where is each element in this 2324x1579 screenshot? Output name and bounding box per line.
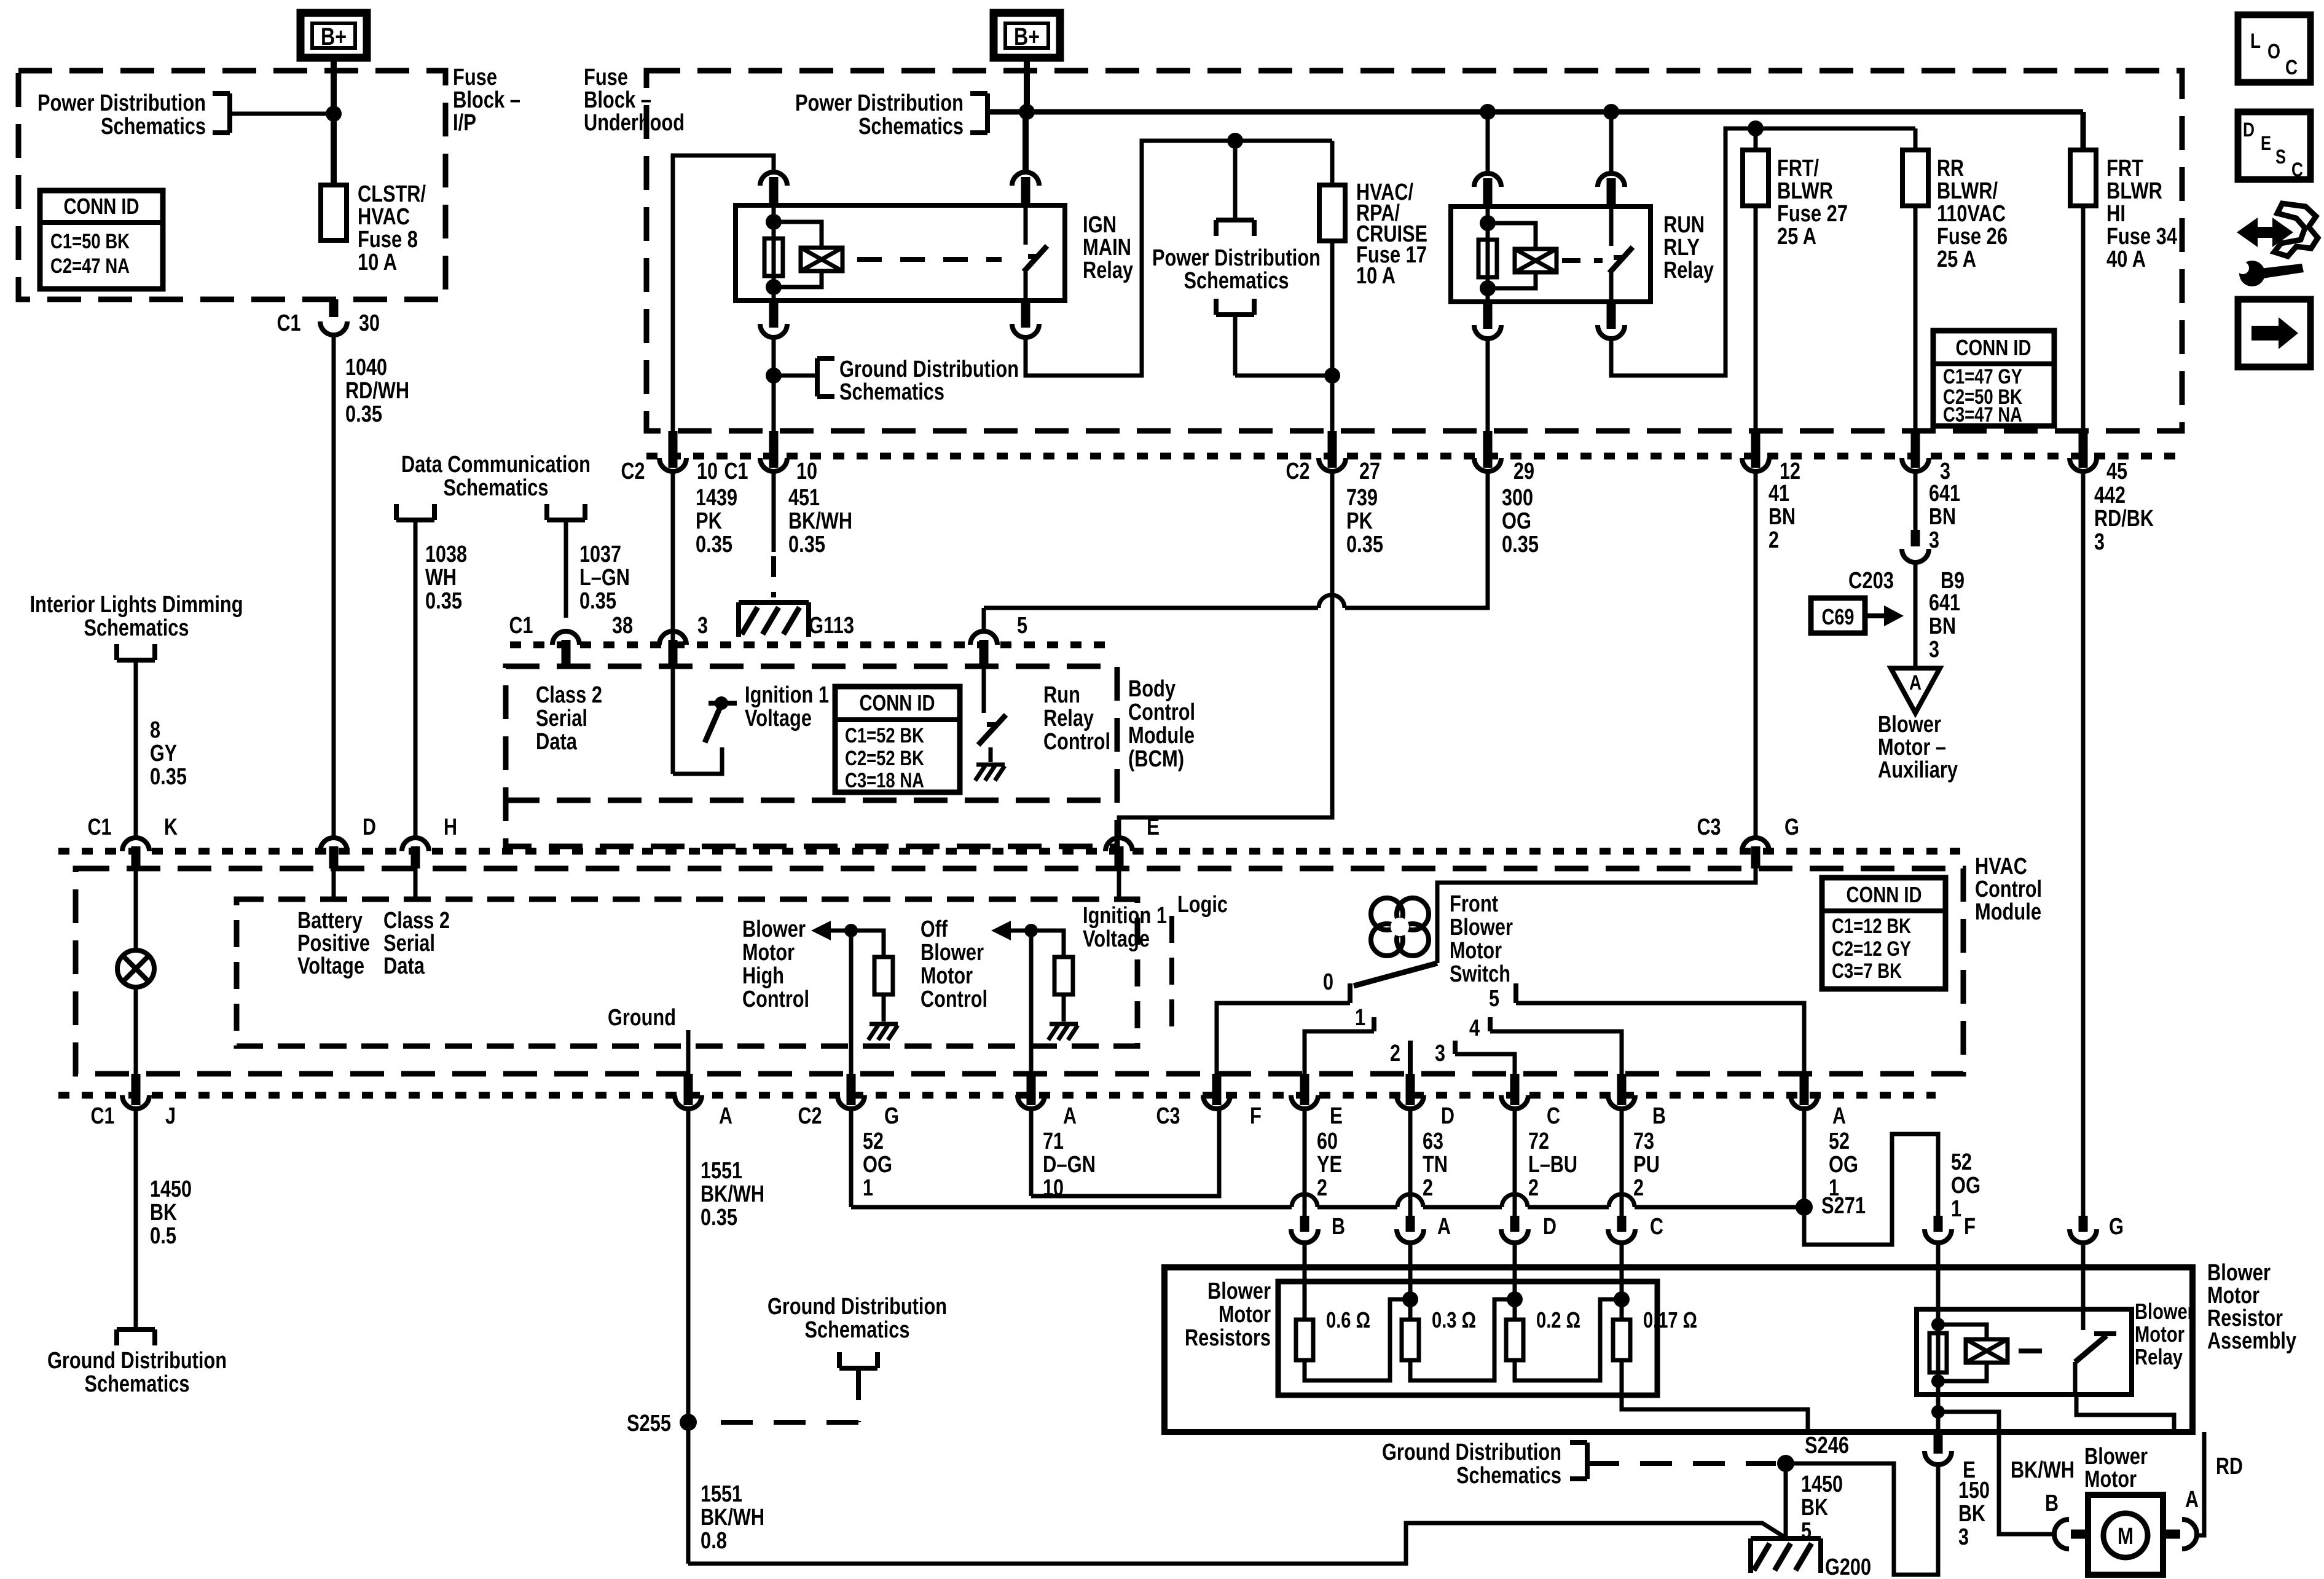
svg-text:1439: 1439 (696, 485, 737, 511)
wire position 5 to A (1516, 1003, 1804, 1074)
svg-text:S: S (2275, 146, 2286, 168)
svg-text:CONN ID: CONN ID (860, 690, 935, 715)
switch of IGN MAIN relay (1024, 205, 1028, 245)
svg-text:B+: B+ (321, 23, 347, 50)
ground G200 (1751, 1536, 1821, 1541)
fuse F34 FRT BLWR HI Fuse 34 40A (2070, 150, 2096, 206)
connector pin A blower motor (2182, 1519, 2197, 1549)
svg-text:150: 150 (1958, 1478, 1990, 1503)
svg-text:0.3 Ω: 0.3 Ω (1432, 1307, 1476, 1333)
svg-text:10: 10 (697, 459, 718, 484)
svg-text:30: 30 (359, 310, 380, 336)
svg-text:641: 641 (1929, 481, 1960, 506)
svg-text:Data: Data (383, 953, 425, 979)
svg-text:M: M (2118, 1524, 2134, 1549)
svg-text:D: D (363, 814, 376, 840)
relay IGN MAIN box (736, 205, 1065, 301)
connector pin F resistor assembly (1934, 1216, 1943, 1232)
svg-text:Blower: Blower (2207, 1260, 2271, 1286)
wire R2 to node 3 (1410, 1299, 1515, 1380)
svg-text:1450: 1450 (1801, 1471, 1843, 1497)
wire 52 OG 1 from C2 G to S271 (849, 1109, 854, 1207)
svg-text:WH: WH (425, 565, 457, 591)
svg-text:S246: S246 (1805, 1433, 1849, 1459)
resistor blower high pulldown (851, 931, 884, 957)
svg-text:Motor: Motor (2084, 1467, 2137, 1492)
wire position 2 to D (1408, 1041, 1413, 1074)
blower motor resistor assembly box (1164, 1267, 2192, 1432)
svg-text:1551: 1551 (701, 1481, 742, 1507)
svg-text:Serial: Serial (536, 706, 587, 731)
connector pin A ground (684, 1074, 693, 1105)
wire B+ to IGN MAIN switch (1023, 112, 1029, 172)
connector C3 pin G (1742, 838, 1769, 851)
connector BCM pin 3 (659, 631, 686, 645)
svg-text:Serial: Serial (383, 931, 435, 956)
svg-text:Motor: Motor (921, 963, 973, 989)
node S271 (1796, 1199, 1813, 1216)
svg-text:C2: C2 (798, 1103, 822, 1129)
svg-text:Front: Front (1450, 891, 1498, 917)
wire RUN RLY coil low to connector 29 (1486, 339, 1490, 458)
connector pin E (1105, 838, 1133, 851)
connector pin 45 (442 RD/BK) (2079, 431, 2088, 468)
svg-text:Assembly: Assembly (2207, 1328, 2296, 1354)
svg-text:0.5: 0.5 (150, 1223, 176, 1249)
svg-text:Data Communication: Data Communication (401, 452, 591, 478)
svg-text:41: 41 (1769, 481, 1789, 506)
wire 1551 BK/WH 0.8 (686, 1422, 691, 1564)
wire 1439 PK 0.35 (671, 471, 675, 774)
svg-text:0.35: 0.35 (425, 588, 462, 614)
wire 300 OG 0.35 to BCM 5 (1345, 471, 1488, 608)
svg-text:25 A: 25 A (1777, 224, 1816, 250)
svg-text:Schematics: Schematics (1456, 1463, 1561, 1489)
wire battery positive voltage into logic (332, 868, 336, 899)
HVAC module bottom connector row (dotted) (58, 1092, 1936, 1099)
svg-text:C: C (2291, 159, 2303, 181)
node B+ bus at RUN RLY switch (1603, 104, 1619, 120)
svg-text:1551: 1551 (701, 1158, 742, 1184)
node junction on B+ feed (326, 106, 342, 122)
wire B+ to RUN RLY coil (1486, 112, 1490, 173)
svg-text:FRT: FRT (2106, 156, 2143, 181)
svg-text:0.35: 0.35 (1502, 532, 1539, 557)
svg-text:63: 63 (1423, 1128, 1443, 1154)
svg-text:Control: Control (742, 986, 809, 1012)
svg-text:4: 4 (1469, 1015, 1480, 1041)
connector C1 pin 38 (BCM) (552, 631, 579, 645)
svg-text:MAIN: MAIN (1083, 235, 1131, 261)
svg-text:BLWR/: BLWR/ (1937, 178, 1998, 204)
icon LOC box (2238, 15, 2310, 82)
svg-text:Body: Body (1128, 676, 1176, 702)
svg-text:5: 5 (1017, 613, 1027, 639)
svg-text:Blower: Blower (2084, 1444, 2148, 1470)
fuse F8 CLSTR/HVAC Fuse 8 10A (321, 185, 347, 240)
svg-text:IGN: IGN (1083, 212, 1117, 238)
svg-text:Ignition 1: Ignition 1 (1083, 903, 1167, 929)
wire fuse 17 bottom / reference join (1235, 374, 1332, 378)
wire IGN MAIN switch out to fuse 17 feed (1026, 141, 1332, 376)
relay blower motor box (1917, 1309, 2132, 1395)
svg-text:C69: C69 (1822, 604, 1855, 629)
switch position 0 (1348, 983, 1352, 1003)
svg-text:Block –: Block – (453, 87, 520, 113)
reference Ground Distribution Schematics (underhood) (815, 358, 820, 396)
connector pin C (1510, 1074, 1520, 1105)
svg-text:0.35: 0.35 (150, 764, 187, 790)
svg-text:0.2 Ω: 0.2 Ω (1536, 1307, 1580, 1333)
svg-text:PU: PU (1633, 1152, 1660, 1178)
svg-text:27: 27 (1359, 459, 1380, 484)
svg-text:HVAC: HVAC (1975, 854, 2027, 880)
svg-text:A: A (1832, 1103, 1846, 1129)
svg-text:GY: GY (150, 741, 177, 766)
connector pin A off blower (1027, 1074, 1036, 1105)
svg-text:BK: BK (150, 1200, 177, 1226)
svg-text:0.35: 0.35 (788, 532, 825, 557)
wire 52 OG 1 switch common (1802, 1109, 1807, 1207)
svg-text:CONN ID: CONN ID (1847, 882, 1922, 907)
svg-text:Class 2: Class 2 (383, 908, 450, 934)
svg-text:C2=12 GY: C2=12 GY (1832, 937, 1911, 961)
svg-text:RD/BK: RD/BK (2094, 506, 2154, 532)
svg-text:F: F (1250, 1103, 1262, 1129)
svg-text:1037: 1037 (579, 541, 621, 567)
connector pin C resistor assembly (1617, 1216, 1627, 1232)
svg-text:K: K (164, 814, 178, 840)
CONN ID table (BCM) (835, 687, 960, 792)
wire reference to B+ node (230, 112, 334, 116)
node S246 (1777, 1455, 1794, 1472)
svg-text:3: 3 (2094, 529, 2105, 555)
BCM connector row (dotted) (510, 642, 1117, 648)
wire position 4 to B (1490, 1031, 1622, 1074)
svg-text:Motor: Motor (1450, 938, 1502, 964)
svg-text:RUN: RUN (1663, 212, 1705, 238)
coil of blower motor relay (1936, 1309, 1941, 1395)
svg-text:Ground: Ground (608, 1005, 676, 1031)
svg-text:Power Distribution: Power Distribution (1152, 245, 1321, 271)
svg-text:Resistors: Resistors (1185, 1325, 1271, 1351)
B+ battery symbol (I/P) (300, 13, 367, 58)
svg-text:C1: C1 (91, 1103, 115, 1129)
wire relay coil low to E and B (1936, 1395, 1941, 1435)
svg-text:300: 300 (1502, 485, 1533, 511)
svg-text:Schematics: Schematics (444, 475, 549, 501)
svg-text:C3=7 BK: C3=7 BK (1832, 959, 1902, 983)
svg-text:C1=52 BK: C1=52 BK (845, 724, 924, 747)
svg-text:BK/WH: BK/WH (2011, 1457, 2075, 1483)
connector arc RUN RLY coil top pin (1474, 173, 1501, 187)
svg-text:Block –: Block – (584, 87, 651, 113)
svg-text:45: 45 (2106, 459, 2127, 484)
wire S246 to G200 (1784, 1463, 1788, 1538)
svg-text:0.8: 0.8 (701, 1528, 727, 1554)
svg-text:8: 8 (150, 717, 160, 743)
wire 73 PU 2 (1620, 1109, 1624, 1216)
connector pin 12 (41 BN) (1751, 431, 1761, 468)
wire bus corner to fuse 34 (2081, 112, 2086, 150)
fuse F26 RR BLWR/110VAC Fuse 26 25A (1914, 128, 1918, 150)
wire 8 GY 0.35 (134, 660, 138, 838)
svg-text:C: C (2285, 56, 2298, 79)
svg-text:C1: C1 (509, 613, 533, 639)
svg-text:Auxiliary: Auxiliary (1878, 757, 1958, 783)
wire RD to motor A (2197, 1432, 2204, 1535)
resistor R1 0.6 ohm (1296, 1320, 1313, 1360)
svg-text:BN: BN (1929, 504, 1956, 530)
node B+ bus at RUN RLY coil (1480, 104, 1496, 120)
switch position 3 (1453, 1041, 1458, 1054)
svg-text:C203: C203 (1848, 568, 1894, 594)
logic divider dashed (1169, 916, 1174, 1034)
wire module G to fan switch (1437, 868, 1756, 963)
svg-text:451: 451 (788, 485, 820, 511)
svg-text:Power Distribution: Power Distribution (37, 90, 206, 116)
connector C2 pin 10 (1439 PK) (669, 431, 678, 468)
svg-text:A: A (719, 1103, 732, 1129)
svg-text:C3: C3 (1156, 1103, 1180, 1129)
svg-text:Schematics: Schematics (805, 1317, 910, 1343)
svg-text:A: A (1437, 1214, 1451, 1240)
svg-text:Underhood: Underhood (584, 110, 685, 136)
wire into resistor 1 (1303, 1243, 1307, 1320)
reference Power Distribution Schematics (mid) (1233, 141, 1238, 220)
svg-text:D: D (1543, 1214, 1557, 1240)
resistor R2 0.3 ohm (1402, 1320, 1419, 1360)
wire 1551 BK/WH 0.35 (686, 1109, 691, 1422)
svg-text:S271: S271 (1821, 1193, 1866, 1219)
off blower motor control arrow (991, 921, 1011, 940)
svg-text:High: High (742, 963, 784, 989)
svg-text:Blower: Blower (1878, 712, 1941, 738)
svg-text:Off: Off (921, 916, 948, 942)
svg-text:52: 52 (1951, 1149, 1972, 1175)
wire 641 BN 3 to blower aux (1914, 562, 1918, 668)
svg-text:CLSTR/: CLSTR/ (358, 181, 426, 207)
svg-text:Schematics: Schematics (839, 379, 944, 405)
svg-text:Motor: Motor (742, 940, 795, 966)
svg-text:D–GN: D–GN (1043, 1152, 1096, 1178)
wire 1040 RD/WH 0.35 (332, 335, 336, 838)
svg-text:D: D (2243, 119, 2255, 141)
wire F to off blower node (1217, 1107, 1219, 1111)
connector arc RUN RLY coil bottom pin (1483, 302, 1493, 329)
svg-text:5: 5 (1489, 986, 1499, 1012)
svg-text:L: L (2250, 30, 2261, 53)
svg-text:B: B (2045, 1490, 2059, 1516)
svg-text:BN: BN (1929, 613, 1956, 639)
coil of RUN RLY relay (1486, 207, 1490, 302)
switch position 4 (1488, 1017, 1493, 1031)
CONN ID table (underhood fuse block) (1933, 331, 2054, 426)
wire G to relay switch (2081, 1243, 2086, 1309)
connector arc IGN MAIN coil bottom pin (769, 301, 779, 328)
HVAC module dashed box (76, 868, 1963, 1074)
svg-text:Control: Control (1043, 729, 1110, 755)
svg-text:52: 52 (863, 1128, 884, 1154)
icon arrow box (2238, 299, 2310, 367)
node fuse 27 tap (1748, 120, 1764, 136)
svg-text:Data: Data (536, 729, 578, 755)
svg-text:Power Distribution: Power Distribution (795, 90, 964, 116)
svg-text:10 A: 10 A (358, 250, 397, 275)
svg-text:Ground Distribution: Ground Distribution (767, 1294, 947, 1320)
blower motor auxiliary triangle A (1891, 668, 1940, 713)
svg-text:Blower: Blower (921, 940, 984, 966)
connector pin D resistor assembly (1510, 1216, 1520, 1232)
connector arc IGN MAIN switch top pin (1012, 172, 1039, 186)
svg-text:Resistor: Resistor (2207, 1305, 2283, 1331)
svg-text:G113: G113 (809, 613, 854, 639)
fuse F17 HVAC/RPA/CRUISE Fuse 17 10A (1330, 141, 1335, 185)
svg-text:OG: OG (1951, 1173, 1981, 1199)
svg-text:C2=47 NA: C2=47 NA (50, 254, 130, 278)
svg-text:CONN ID: CONN ID (64, 194, 139, 219)
svg-text:BLWR: BLWR (2106, 178, 2162, 204)
svg-text:L–GN: L–GN (579, 565, 630, 591)
svg-text:60: 60 (1317, 1128, 1338, 1154)
svg-text:Schematics: Schematics (84, 615, 189, 641)
svg-text:C3=47 NA: C3=47 NA (1943, 403, 2022, 427)
icon DESC box (2238, 112, 2310, 179)
connector arc RUN RLY switch bottom pin (1607, 302, 1616, 329)
svg-text:Battery: Battery (297, 908, 363, 934)
wire 63 TN 2 (1408, 1109, 1413, 1216)
svg-text:Run: Run (1043, 682, 1080, 708)
dashed link blower relay coil to switch (2019, 1349, 2052, 1353)
svg-text:Relay: Relay (1663, 258, 1714, 283)
svg-text:2: 2 (1390, 1041, 1400, 1066)
svg-text:Fuse: Fuse (453, 65, 497, 90)
svg-text:BK/WH: BK/WH (701, 1505, 764, 1530)
svg-text:I/P: I/P (453, 110, 476, 136)
ground blower high pulldown (870, 1022, 898, 1026)
svg-text:B: B (1332, 1214, 1345, 1240)
wire R1 to node 2 (1305, 1299, 1410, 1380)
switch position 1 (1372, 1017, 1376, 1031)
svg-text:Schematics: Schematics (1184, 268, 1289, 294)
svg-text:Interior Lights Dimming: Interior Lights Dimming (30, 592, 243, 618)
svg-text:CONN ID: CONN ID (1956, 335, 2032, 360)
connector pin 3 (641 BN) (1911, 431, 1920, 468)
resistor R4 0.17 ohm (1613, 1320, 1630, 1360)
svg-text:BK/WH: BK/WH (788, 508, 852, 534)
svg-text:0: 0 (1323, 969, 1333, 995)
svg-text:73: 73 (1633, 1128, 1654, 1154)
connector pin B blower motor (2054, 1519, 2069, 1549)
connector pin H (402, 838, 429, 851)
svg-text:A: A (1063, 1103, 1077, 1129)
svg-text:2: 2 (1528, 1175, 1539, 1201)
blower motor box (2088, 1495, 2163, 1575)
ground G113 (739, 600, 809, 605)
node PDS tap on fuse 17 feed (1227, 133, 1243, 149)
svg-text:641: 641 (1929, 590, 1960, 616)
CONN ID table (HVAC control module) (1822, 878, 1945, 989)
wire R3 to node 4 (1515, 1299, 1622, 1380)
wire 442 RD/BK 3 to resistor assembly G (2081, 471, 2086, 1216)
fuse block I/P dashed box (18, 71, 446, 299)
svg-text:0.17 Ω: 0.17 Ω (1643, 1307, 1697, 1333)
svg-text:3: 3 (1435, 1041, 1445, 1066)
fan switch arm (1354, 963, 1437, 986)
wire 60 YE 2 (1303, 1109, 1307, 1216)
svg-text:J: J (165, 1103, 176, 1129)
wire 71 D-GN 10 (1029, 1109, 1034, 1196)
connector pin B (1617, 1074, 1627, 1105)
dashed link RUN RLY coil to switch (1562, 258, 1603, 263)
node B+ bus at B+ feed (1019, 104, 1035, 120)
svg-text:442: 442 (2094, 482, 2126, 508)
svg-text:Schematics: Schematics (101, 114, 206, 140)
svg-text:40 A: 40 A (2106, 246, 2146, 272)
wire blower motor high control to C2 G (849, 931, 854, 1074)
svg-text:Control: Control (1975, 876, 2042, 902)
svg-text:Voltage: Voltage (745, 706, 812, 731)
svg-text:BLWR: BLWR (1777, 178, 1833, 204)
dashed link coil to switch (857, 257, 1002, 262)
svg-text:HVAC: HVAC (358, 204, 410, 230)
svg-text:FRT/: FRT/ (1777, 156, 1819, 181)
ground off blower pulldown (1050, 1022, 1078, 1026)
svg-text:Control: Control (921, 986, 987, 1012)
svg-text:G: G (884, 1103, 899, 1129)
svg-text:D: D (1441, 1103, 1454, 1129)
svg-text:E: E (2261, 132, 2271, 154)
svg-text:1: 1 (1951, 1196, 1961, 1222)
svg-text:Schematics: Schematics (85, 1371, 190, 1397)
svg-text:BK: BK (1801, 1495, 1828, 1521)
svg-text:3: 3 (697, 613, 708, 639)
wire position 0 to F (1217, 1003, 1350, 1074)
svg-text:HI: HI (2106, 201, 2126, 227)
svg-text:110VAC: 110VAC (1937, 201, 2006, 227)
resistor off blower pulldown (1031, 931, 1064, 957)
svg-text:C: C (1547, 1103, 1560, 1129)
svg-text:2: 2 (1633, 1175, 1644, 1201)
svg-text:A: A (2185, 1487, 2199, 1513)
svg-text:52: 52 (1829, 1128, 1850, 1154)
svg-text:RD: RD (2216, 1454, 2243, 1479)
svg-text:Fuse 27: Fuse 27 (1777, 201, 1848, 227)
wire 1038 WH 0.35 (414, 520, 418, 838)
svg-text:10: 10 (796, 459, 817, 484)
svg-text:OG: OG (1829, 1152, 1858, 1178)
connector C203 pin B9 (1911, 530, 1920, 546)
svg-text:Motor –: Motor – (1878, 734, 1946, 760)
B+ bus wire (987, 109, 2083, 115)
svg-text:C1=12 BK: C1=12 BK (1832, 915, 1911, 938)
connector C2 pin G (847, 1074, 856, 1105)
wire into resistor 3 (1513, 1243, 1517, 1320)
connector pin E (1300, 1074, 1309, 1105)
svg-text:E: E (1330, 1103, 1343, 1129)
wire IGN MAIN coil low to C1-10 (772, 337, 776, 458)
svg-text:1450: 1450 (150, 1176, 192, 1202)
wire coil top loop to connector C2-10 (673, 156, 774, 458)
svg-text:3: 3 (1958, 1524, 1969, 1550)
svg-text:Blower: Blower (1450, 915, 1513, 940)
svg-text:25 A: 25 A (1937, 246, 1976, 272)
svg-text:Blower: Blower (742, 916, 806, 942)
wire 641 BN 3 to C203 (1914, 471, 1918, 530)
svg-text:G200: G200 (1825, 1554, 1871, 1579)
connector pin 29 (300 OG) (1483, 431, 1493, 468)
svg-text:F: F (1964, 1214, 1976, 1240)
